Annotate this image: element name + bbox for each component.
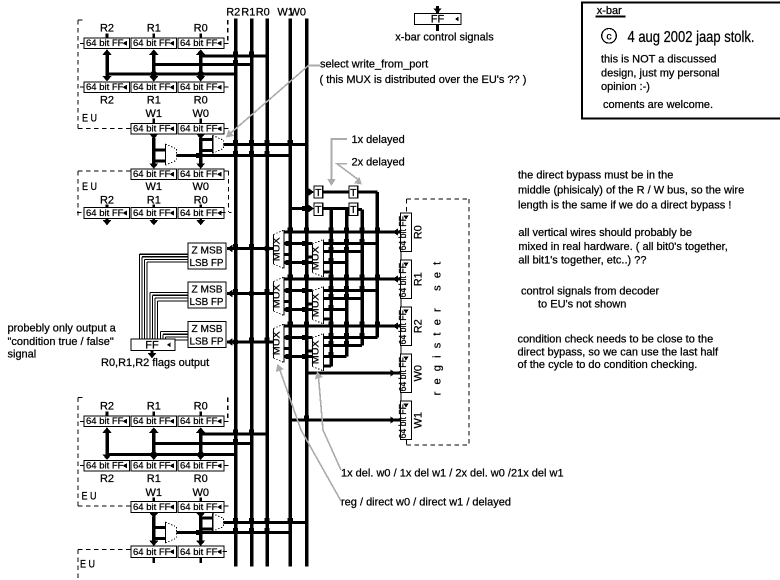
condition check box Z2: [188, 322, 226, 348]
svg-text:T: T: [315, 187, 322, 199]
svg-text:of the cycle to do condition c: of the cycle to do condition checking.: [518, 359, 698, 371]
svg-text:"condition true / false": "condition true / false": [8, 336, 114, 348]
wire W1 bus to T3: [290, 207, 310, 210]
wire T4 output: [358, 208, 362, 211]
svg-text:Z MSB: Z MSB: [192, 245, 223, 257]
svg-text:64 bit FF: 64 bit FF: [133, 169, 171, 180]
svg-text:64 bit FF: 64 bit FF: [180, 208, 218, 219]
EU3/EU4 wires row1 to row2: [102, 427, 111, 433]
svg-text:x-bar: x-bar: [597, 5, 622, 17]
row 1 input wire h2: [324, 297, 363, 300]
EU3/EU4 write mux feed wires: [149, 513, 158, 519]
svg-text:64 bit FF: 64 bit FF: [180, 547, 218, 558]
svg-text:R0: R0: [413, 225, 425, 239]
svg-text:Z MSB: Z MSB: [192, 323, 223, 335]
svg-text:64 bit FF: 64 bit FF: [133, 416, 171, 427]
EU1/EU2 row5 64-bit FF boxes R2 R1 R0: [84, 208, 130, 219]
mux right column row 1: [312, 287, 323, 325]
row 0 input wire h3 from W1: [284, 253, 290, 256]
mux right column row 0: [312, 240, 323, 278]
EU3/EU4 wire line B' (R1 read): [154, 442, 252, 445]
svg-text:R1: R1: [147, 401, 161, 413]
svg-text:64 bit FF: 64 bit FF: [398, 310, 409, 345]
svg-text:reg / direct w0 / direct w1 /: reg / direct w0 / direct w1 / delayed: [341, 497, 511, 509]
svg-text:R2: R2: [100, 23, 114, 35]
svg-text:T: T: [350, 204, 357, 216]
svg-text:all vertical wires should prob: all vertical wires should probably be: [518, 227, 692, 239]
svg-text:R0: R0: [194, 23, 208, 35]
wire W0 bus to T1: [307, 191, 311, 194]
svg-text:64 bit FF: 64 bit FF: [180, 416, 218, 427]
vertical bus R2: [234, 19, 238, 567]
svg-text:E U: E U: [82, 491, 97, 503]
delay drop wire x362: [360, 210, 364, 346]
row 1 input wire h6: [324, 318, 332, 321]
svg-text:FF: FF: [145, 340, 159, 352]
svg-text:MUX: MUX: [271, 237, 282, 262]
svg-text:64 bit FF: 64 bit FF: [180, 460, 218, 471]
svg-text:the direct bypass must be in t: the direct bypass must be in the: [518, 170, 673, 182]
row 0 input wire h4 from W0: [307, 256, 313, 259]
EU1/EU2 row4 64-bit FF boxes W1 W0: [131, 169, 177, 180]
svg-text:MUX: MUX: [310, 246, 321, 271]
svg-text:64 bit FF: 64 bit FF: [398, 216, 409, 251]
EU3/EU4 wire line A' (R0 read): [201, 433, 267, 436]
flags FF box: [131, 339, 175, 351]
row 1 input wire h3 from W1: [284, 300, 290, 303]
flag bundle Z2 to FF: [161, 331, 189, 332]
leader 1x delayed: [332, 139, 348, 181]
flag bundle Z1 to FF: [150, 292, 188, 293]
read bus row 0 (y=232): [284, 231, 401, 234]
svg-text:W0: W0: [192, 181, 209, 193]
copyright line: [602, 29, 617, 44]
EU3/EU4 mux select-write W0: [213, 514, 224, 532]
svg-text:R2: R2: [100, 95, 114, 107]
row 2 input wire h5: [284, 355, 312, 358]
svg-text:64 bit FF: 64 bit FF: [133, 208, 171, 219]
svg-text:64 bit FF: 64 bit FF: [133, 502, 171, 513]
mux left column row 1: [274, 277, 285, 316]
svg-text:E U: E U: [82, 181, 97, 193]
svg-text:64 bit FF: 64 bit FF: [180, 82, 218, 93]
svg-text:64 bit FF: 64 bit FF: [133, 460, 171, 471]
wire T3 to T4: [323, 207, 349, 210]
row 2 input wire h3 from W1: [284, 347, 290, 350]
register 64-bit FF W0: [401, 354, 412, 393]
svg-text:design, just my personal: design, just my personal: [601, 68, 720, 80]
condition check box Z1: [188, 282, 226, 308]
x-bar control FF box: [433, 8, 441, 13]
svg-text:64 bit FF: 64 bit FF: [398, 263, 409, 298]
svg-text:control signals from decoder: control signals from decoder: [521, 286, 660, 298]
svg-text:( this MUX is distributed over: ( this MUX is distributed over the EU's …: [320, 74, 527, 86]
mux left column row 0: [274, 230, 285, 269]
delay element T4: [349, 203, 358, 216]
svg-text:this is NOT a discussed: this is NOT a discussed: [601, 54, 716, 66]
svg-text:R1: R1: [147, 23, 161, 35]
EU1/EU2 wire line A (R0 read): [201, 55, 267, 58]
svg-text:MUX: MUX: [310, 340, 321, 365]
svg-text:R2: R2: [100, 401, 114, 413]
condition tap wire row 0: [227, 245, 233, 253]
svg-text:64 bit FF: 64 bit FF: [133, 547, 171, 558]
svg-text:all bit1's together, etc..) ?: all bit1's together, etc..) ??: [518, 255, 646, 267]
EU1/EU2 wires row1 to row2: [102, 49, 111, 55]
svg-text:R1: R1: [413, 272, 425, 286]
row 2 input wire h4 from W0: [307, 350, 313, 353]
wire T1 to T2: [323, 191, 349, 194]
EU3/EU4 wire W1 mux output to W1 bus: [177, 531, 291, 534]
svg-text:coments are welcome.: coments are welcome.: [603, 99, 713, 111]
svg-text:W0: W0: [290, 7, 307, 19]
svg-text:64 bit FF: 64 bit FF: [180, 169, 218, 180]
svg-text:W0: W0: [192, 487, 209, 499]
EU3/EU4 wire line C' (R2 read): [107, 453, 236, 456]
condition check box Z0: [188, 243, 226, 269]
EU1/EU2 mux select-write W1: [166, 144, 177, 165]
register column edge line: [400, 213, 401, 440]
flag bundle Z0 to FF: [140, 254, 189, 255]
svg-text:64 bit FF: 64 bit FF: [133, 38, 171, 49]
row 1 input wire h1: [284, 289, 312, 292]
EU1/EU2 mux select-write W0: [213, 135, 224, 153]
svg-text:R2: R2: [413, 319, 425, 333]
read bus row 1 (y=279): [284, 278, 401, 281]
svg-text:T: T: [350, 187, 357, 199]
EU1/EU2 wire line B (R1 read): [154, 63, 252, 66]
svg-text:W0: W0: [413, 365, 425, 382]
EU3/EU4 wire W0 mux output to W0 bus: [224, 521, 307, 524]
vertical bus W0: [305, 19, 309, 567]
row 0 input wire h6: [324, 271, 332, 274]
read bus row 2 (y=326): [284, 325, 401, 328]
EU1/EU2 wire W0 mux output to W0 bus: [224, 143, 307, 146]
register 64-bit FF R2: [401, 307, 412, 346]
EU1/EU2 row2 64-bit FF boxes: [84, 82, 130, 93]
register 64-bit FF R1: [401, 260, 412, 299]
svg-text:R1: R1: [147, 473, 161, 485]
svg-text:MUX: MUX: [271, 331, 282, 356]
row 2 input wire h6: [324, 365, 332, 368]
flags FF output arrow: [150, 351, 153, 354]
svg-text:64 bit FF: 64 bit FF: [180, 38, 218, 49]
EU3/EU4 mux select-write W1: [166, 522, 177, 543]
EU3/EU4 row3 64-bit FF boxes W1 W0: [131, 502, 177, 513]
EU1/EU2 wire W1 mux output to W1 bus: [177, 154, 291, 157]
EU3/EU4 row4 ticks: [152, 558, 155, 563]
svg-text:W1: W1: [413, 412, 425, 429]
svg-text:64 bit FF: 64 bit FF: [180, 502, 218, 513]
row 1 input wire h5: [284, 308, 312, 311]
svg-text:R1: R1: [147, 95, 161, 107]
svg-text:1x delayed: 1x delayed: [352, 134, 405, 146]
EU3/EU4 row1 64-bit FF boxes R2 R1 R0: [84, 416, 130, 427]
row 0 input wire h5: [284, 261, 312, 264]
svg-text:W1: W1: [146, 487, 163, 499]
svg-text:probebly only output a: probebly only output a: [8, 323, 117, 335]
svg-text:direct bypass, so we can use t: direct bypass, so we can use the last ha…: [518, 347, 719, 359]
svg-text:R0: R0: [194, 401, 208, 413]
svg-text:c: c: [606, 31, 611, 43]
row 0 input wire h1: [284, 242, 312, 245]
EU2 dashed border: [78, 170, 131, 172]
svg-text:x-bar control signals: x-bar control signals: [395, 32, 494, 44]
leader select write_from_port: [229, 66, 320, 135]
leader 2x delayed: [337, 164, 360, 181]
svg-text:T: T: [315, 204, 322, 216]
delay element T2: [349, 186, 358, 198]
EU1/EU2 row1 64-bit FF boxes R2 R1 R0: [84, 38, 130, 49]
svg-text:LSB FP: LSB FP: [190, 336, 224, 348]
svg-text:R0: R0: [194, 95, 208, 107]
svg-text:64 bit FF: 64 bit FF: [86, 416, 124, 427]
register 64-bit FF R0: [401, 213, 412, 252]
vertical bus R1: [250, 19, 254, 567]
svg-text:FF: FF: [431, 14, 445, 26]
svg-text:R0: R0: [194, 473, 208, 485]
leader 1x del w0 list: [319, 377, 342, 470]
delay element T3: [314, 203, 323, 216]
EU3/EU4 row4 64-bit FF boxes W1 W0: [131, 546, 177, 558]
svg-text:register set: register set: [432, 255, 444, 396]
row 0 input wire h2: [324, 250, 363, 253]
svg-text:select write_from_port: select write_from_port: [320, 59, 428, 71]
row 2 input wire h2: [324, 344, 363, 347]
mux right column row 2: [312, 334, 323, 372]
svg-text:signal: signal: [8, 349, 37, 361]
register 64-bit FF W1: [401, 401, 412, 440]
svg-text:R2: R2: [226, 7, 240, 19]
svg-text:opinion :-): opinion :-): [601, 81, 650, 93]
svg-text:to EU's not shown: to EU's not shown: [538, 299, 626, 311]
svg-text:Z MSB: Z MSB: [192, 284, 223, 296]
EU1/EU2 row3 64-bit FF boxes W1 W0: [131, 124, 177, 135]
vertical bus W1: [289, 19, 293, 567]
condition tap wire row 1: [227, 290, 233, 298]
svg-text:W1: W1: [146, 181, 163, 193]
x-bar info box: [582, 3, 780, 119]
svg-text:LSB FP: LSB FP: [190, 296, 224, 308]
svg-text:64 bit FF: 64 bit FF: [86, 38, 124, 49]
svg-text:mixed in real hardware. ( all: mixed in real hardware. ( all bit0's tog…: [518, 241, 727, 253]
EU1/EU2 row5 output arrows: [106, 219, 109, 221]
svg-text:64 bit FF: 64 bit FF: [133, 82, 171, 93]
svg-text:LSB FP: LSB FP: [190, 257, 224, 269]
EU3/EU4 row2 64-bit FF boxes: [84, 461, 130, 472]
svg-text:condition check needs to be cl: condition check needs to be close to the: [518, 334, 714, 346]
svg-text:64 bit FF: 64 bit FF: [398, 357, 409, 392]
write bus W1 row (y=420): [290, 419, 400, 422]
row 1 input wire h4 from W0: [307, 303, 313, 306]
svg-text:W0: W0: [192, 108, 209, 120]
mux left column row 2: [274, 324, 285, 363]
svg-text:64 bit FF: 64 bit FF: [398, 404, 409, 439]
svg-text:R0,R1,R2 flags output: R0,R1,R2 flags output: [101, 357, 209, 369]
svg-text:64 bit FF: 64 bit FF: [86, 208, 124, 219]
svg-text:MUX: MUX: [310, 293, 321, 318]
condition tap wire row 2: [227, 338, 233, 346]
wire T2 output: [358, 191, 378, 194]
svg-text:64 bit FF: 64 bit FF: [86, 82, 124, 93]
delay drop wire x331: [329, 209, 333, 367]
register set dashed box: [407, 198, 470, 200]
svg-text:R2: R2: [100, 473, 114, 485]
vertical bus R0: [265, 19, 269, 567]
svg-text:R0: R0: [256, 7, 270, 19]
EU1 dashed border: [77, 20, 79, 129]
EU3 dashed border: [77, 398, 79, 507]
svg-text:R1: R1: [241, 7, 255, 19]
row 2 input wire h1: [284, 336, 312, 339]
EU4 dashed border: [78, 549, 131, 551]
svg-text:E U: E U: [82, 113, 97, 125]
delay drop wire x346: [345, 209, 349, 357]
svg-text:middle (phisicaly) of the R /: middle (phisicaly) of the R / W bus, so …: [518, 185, 744, 197]
svg-text:1x del. w0 / 1x del w1 / 2x de: 1x del. w0 / 1x del w1 / 2x del. w0 /21x…: [341, 468, 564, 480]
svg-text:64 bit FF: 64 bit FF: [180, 123, 218, 134]
write bus W0 row (y=373): [307, 372, 401, 375]
svg-text:W1: W1: [146, 108, 163, 120]
svg-text:E U: E U: [80, 559, 95, 571]
leader reg / direct list: [280, 369, 342, 501]
svg-text:4 aug 2002 jaap stolk.: 4 aug 2002 jaap stolk.: [628, 29, 755, 46]
delay element T1: [314, 186, 323, 198]
EU1/EU2 wire line C (R2 read): [107, 73, 236, 76]
svg-text:64 bit FF: 64 bit FF: [133, 123, 171, 134]
svg-text:2x delayed: 2x delayed: [352, 156, 405, 168]
svg-text:length is the same if we do a: length is the same if we do a direct byp…: [518, 200, 731, 212]
delay drop wire x377: [376, 192, 380, 338]
svg-text:64 bit FF: 64 bit FF: [86, 460, 124, 471]
svg-text:MUX: MUX: [271, 284, 282, 309]
EU1/EU2 write mux feed wires: [149, 134, 158, 140]
